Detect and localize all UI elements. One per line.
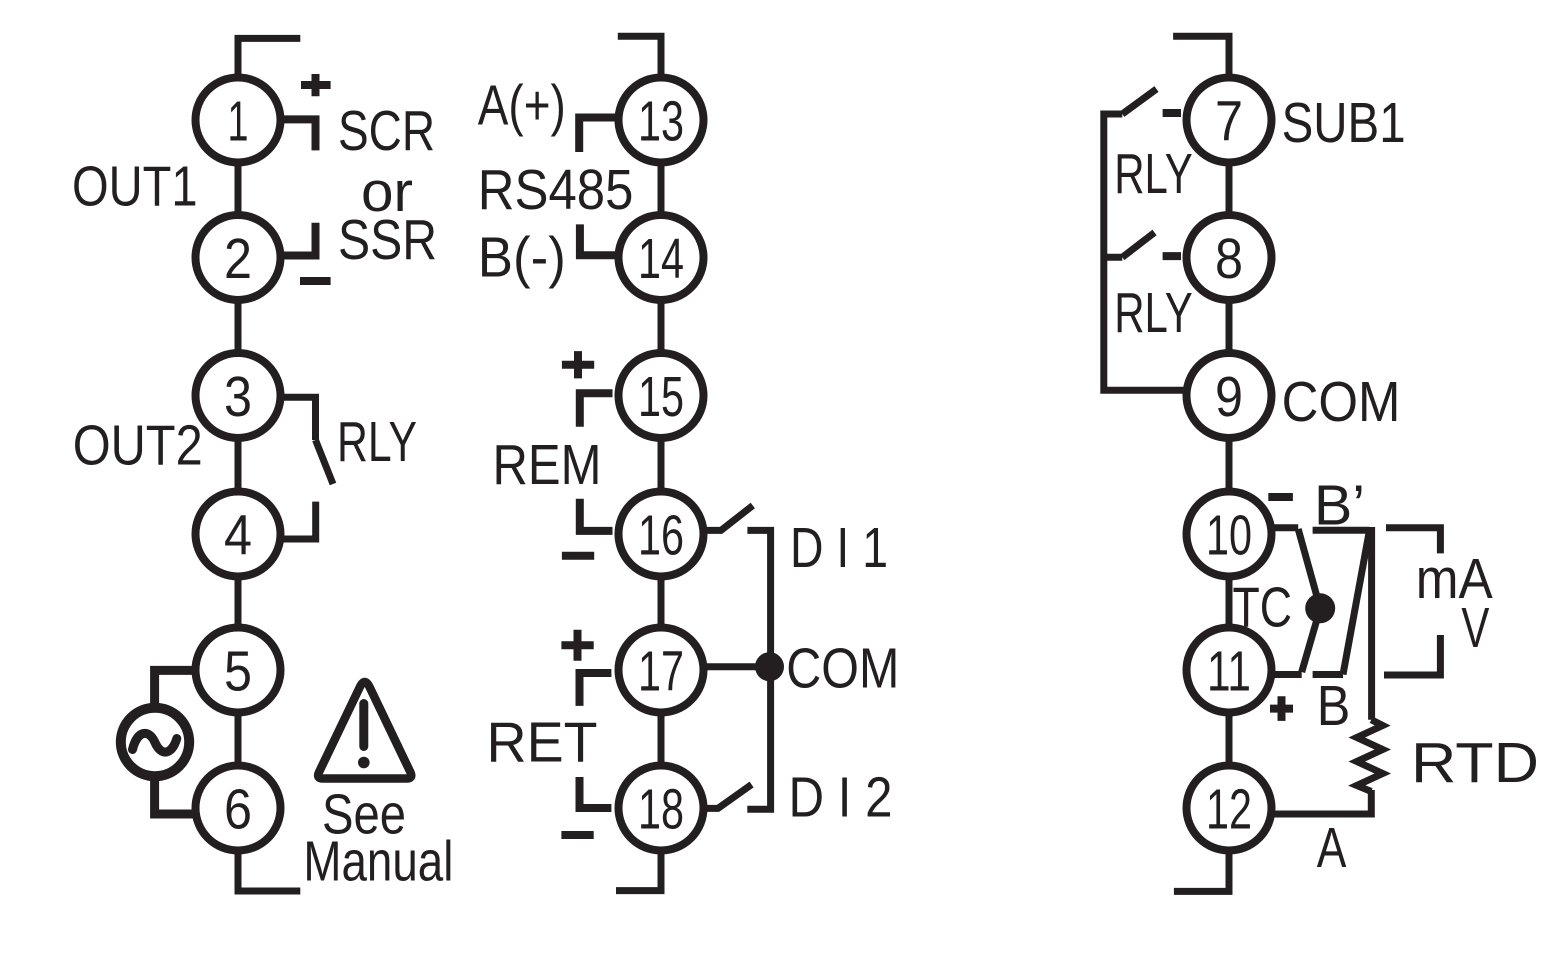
wire top hook column3 xyxy=(1173,36,1229,78)
wire stub terminal 13 RS485 A xyxy=(579,118,616,153)
wire top hook column1 xyxy=(238,38,300,78)
wire AC source to terminal6 xyxy=(155,780,193,814)
svg-text:RLY: RLY xyxy=(337,410,417,474)
svg-text:D I 1: D I 1 xyxy=(790,516,888,580)
wire RTD vertical lead xyxy=(1368,527,1375,720)
switch blade DI1 xyxy=(705,506,753,531)
plus sign terminal 11 xyxy=(1270,696,1293,721)
wire terminal8-terminal9 xyxy=(1226,298,1233,356)
svg-text:15: 15 xyxy=(638,365,684,429)
wire stub terminal 2 SSR minus xyxy=(282,223,316,256)
wire stub terminal 4 relay xyxy=(282,502,316,539)
relay switch blade SUB1 xyxy=(1122,89,1156,114)
svg-text:12: 12 xyxy=(1206,777,1252,841)
AC sine wave symbol xyxy=(133,733,177,752)
wire bottom hook column3 xyxy=(1174,848,1229,891)
svg-text:5: 5 xyxy=(224,639,252,703)
minus sign terminal 18 xyxy=(561,831,593,839)
svg-text:COM: COM xyxy=(1282,370,1401,434)
wire stub terminal 18 RET minus xyxy=(580,777,612,808)
wire stub terminal 1 SCR plus xyxy=(282,119,316,150)
wire stub terminal 15 REM plus xyxy=(580,393,613,427)
wire bottom hook column1 xyxy=(238,850,300,891)
svg-text:RTD: RTD xyxy=(1411,731,1539,795)
svg-text:RS485: RS485 xyxy=(478,158,634,222)
svg-text:RET: RET xyxy=(487,711,598,775)
plus sign terminal 17 xyxy=(561,630,593,661)
wire terminal1-terminal2 xyxy=(235,160,242,218)
terminal 15 xyxy=(619,353,704,438)
relay switch blade SUB2 xyxy=(1122,233,1154,258)
wire stub terminal 3 relay xyxy=(282,397,316,440)
svg-text:11: 11 xyxy=(1207,639,1251,703)
relay fixed contact SUB2 xyxy=(1163,252,1181,260)
wire bracket mA V top xyxy=(1386,528,1440,554)
wire terminal5-terminal6 xyxy=(235,710,242,768)
svg-text:SUB1: SUB1 xyxy=(1282,91,1406,155)
wire terminal9-terminal10 xyxy=(1226,436,1233,495)
svg-text:RLY: RLY xyxy=(1114,281,1193,345)
svg-text:6: 6 xyxy=(224,777,252,841)
svg-text:V: V xyxy=(1461,596,1489,660)
terminal 1 xyxy=(196,78,281,163)
svg-text:1: 1 xyxy=(228,89,249,153)
svg-text:18: 18 xyxy=(638,777,684,841)
terminal 7 xyxy=(1187,78,1272,163)
switch blade DI2 xyxy=(705,785,752,809)
svg-text:SSR: SSR xyxy=(338,208,437,272)
terminal 2 xyxy=(196,215,281,300)
terminal 17 xyxy=(619,628,704,713)
svg-text:SCR: SCR xyxy=(338,99,435,163)
terminal 8 xyxy=(1187,215,1272,300)
minus sign terminal 10 xyxy=(1268,493,1293,501)
svg-text:16: 16 xyxy=(638,503,684,567)
terminal 13 xyxy=(619,78,704,163)
wire terminal2-terminal3 xyxy=(235,298,242,356)
TC lower lead xyxy=(1302,608,1321,672)
warning triangle symbol xyxy=(318,682,411,779)
wire top rail B-prime xyxy=(1313,527,1370,534)
svg-text:8: 8 xyxy=(1215,227,1243,291)
svg-text:OUT1: OUT1 xyxy=(72,155,198,219)
svg-text:9: 9 xyxy=(1215,365,1243,429)
wire stub terminal 14 RS485 B xyxy=(580,224,616,255)
wire relay bus column3 xyxy=(1104,114,1184,390)
terminal 14 xyxy=(619,215,704,300)
terminal 9 xyxy=(1187,353,1272,438)
plus sign terminal 1 xyxy=(301,74,331,96)
terminal 5 xyxy=(196,628,281,713)
wire terminal17 to COM bus xyxy=(707,663,771,670)
wire stub terminal 11 xyxy=(1273,671,1302,678)
wire terminal14-terminal15 xyxy=(658,298,665,356)
terminal 16 xyxy=(619,492,704,577)
svg-text:B: B xyxy=(1317,674,1351,738)
wire terminal4-terminal5 xyxy=(235,574,242,630)
wire terminal17-terminal18 xyxy=(658,710,665,768)
AC power source circle xyxy=(121,708,189,776)
terminal 11 xyxy=(1187,628,1272,713)
wire relay stub SUB2 xyxy=(1104,254,1123,261)
junction dot TC xyxy=(1305,593,1335,623)
svg-text:A(+): A(+) xyxy=(478,74,566,138)
svg-text:13: 13 xyxy=(638,89,684,153)
svg-text:14: 14 xyxy=(638,227,684,291)
relay fixed contact SUB1 xyxy=(1163,109,1181,117)
wire bottom rail B xyxy=(1313,671,1343,678)
wire RTD to terminal 12 xyxy=(1274,790,1371,814)
svg-text:REM: REM xyxy=(493,433,602,497)
svg-text:Manual: Manual xyxy=(303,830,453,894)
TC upper lead xyxy=(1298,529,1320,608)
wire terminal10-terminal11 xyxy=(1226,574,1233,630)
wire bottom hook column2 xyxy=(616,850,661,891)
wire terminal11-terminal12 xyxy=(1226,710,1233,768)
wire bracket mA V bottom xyxy=(1384,635,1440,675)
svg-text:7: 7 xyxy=(1215,89,1243,153)
svg-text:D I 2: D I 2 xyxy=(789,765,893,829)
resistor RTD zigzag xyxy=(1357,720,1383,792)
wire terminal15-terminal16 xyxy=(658,436,665,495)
wire bracket DI1 bus DI2 xyxy=(747,530,770,809)
wire terminal16-terminal17 xyxy=(658,574,665,630)
wire top hook column2 xyxy=(618,36,661,78)
svg-text:A: A xyxy=(1317,816,1347,880)
wire slant lead mA V xyxy=(1343,530,1370,674)
svg-text:COM: COM xyxy=(786,636,899,700)
wire terminal5 to AC source xyxy=(155,670,193,704)
svg-text:2: 2 xyxy=(224,227,252,291)
svg-text:17: 17 xyxy=(638,639,684,703)
svg-text:B(-): B(-) xyxy=(478,226,566,290)
warning exclamation mark xyxy=(359,704,368,747)
wire terminal13-terminal14 xyxy=(658,160,665,218)
wire terminal3-terminal4 xyxy=(235,436,242,495)
wire stub terminal 17 RET plus xyxy=(580,673,612,706)
relay switch blade OUT2 xyxy=(316,440,334,484)
svg-text:3: 3 xyxy=(224,365,252,429)
wire terminal7-terminal8 xyxy=(1226,160,1233,218)
terminal 12 xyxy=(1187,766,1272,851)
minus sign terminal 16 xyxy=(562,552,594,560)
svg-text:4: 4 xyxy=(224,503,252,567)
svg-text:OUT2: OUT2 xyxy=(73,414,203,478)
wire stub terminal 16 REM minus xyxy=(580,499,613,531)
wire stub terminal 10 xyxy=(1273,524,1298,531)
svg-text:10: 10 xyxy=(1206,503,1252,567)
terminal 3 xyxy=(196,353,281,438)
terminal 18 xyxy=(619,766,704,851)
junction dot COM xyxy=(755,652,784,681)
terminal 6 xyxy=(196,766,281,851)
svg-text:RLY: RLY xyxy=(1114,142,1193,206)
terminal 10 xyxy=(1187,492,1272,577)
terminal 4 xyxy=(196,492,281,577)
plus sign terminal 15 xyxy=(562,351,594,378)
minus sign terminal 2 xyxy=(300,277,331,285)
